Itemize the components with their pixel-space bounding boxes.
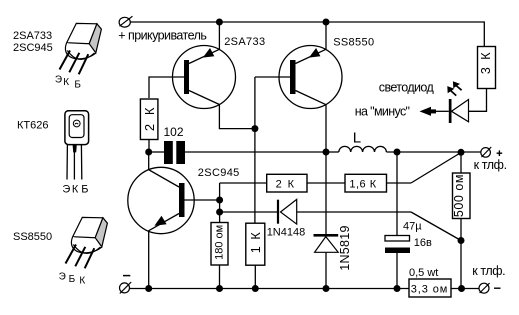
svg-text:16в: 16в: [414, 237, 432, 249]
svg-text:Э: Э: [59, 271, 66, 282]
svg-text:КТ626: КТ626: [17, 119, 48, 131]
svg-text:1 К: 1 К: [249, 231, 263, 254]
svg-text:2SC945: 2SC945: [198, 167, 240, 179]
svg-text:2SC945: 2SC945: [13, 42, 53, 54]
svg-text:к тлф.: к тлф.: [472, 264, 505, 278]
svg-text:К: К: [79, 276, 85, 287]
svg-text:L: L: [353, 129, 361, 146]
svg-text:К: К: [72, 183, 79, 195]
svg-text:Э: Э: [55, 75, 62, 86]
svg-text:к тлф.: к тлф.: [474, 158, 507, 172]
svg-text:+ прикуриватель: + прикуриватель: [118, 28, 206, 42]
svg-text:3 К: 3 К: [479, 50, 493, 74]
svg-text:2 К: 2 К: [276, 179, 296, 191]
svg-text:Б: Б: [81, 183, 88, 195]
svg-text:1,6 К: 1,6 К: [349, 179, 376, 191]
svg-text:1N4148: 1N4148: [267, 226, 306, 238]
svg-text:светодиод: светодиод: [379, 81, 435, 95]
svg-text:Э: Э: [62, 183, 70, 195]
svg-text:Б: Б: [69, 274, 76, 285]
svg-text:3,3 ом: 3,3 ом: [411, 283, 448, 295]
svg-text:SS8550: SS8550: [333, 37, 374, 49]
svg-text:180 ом: 180 ом: [213, 225, 225, 260]
svg-text:0,5 wt: 0,5 wt: [409, 267, 438, 279]
svg-text:2SA733: 2SA733: [224, 36, 265, 48]
svg-text:2 К: 2 К: [142, 105, 157, 131]
svg-text:47µ: 47µ: [403, 220, 422, 232]
svg-text:на "минус": на "минус": [355, 104, 410, 118]
svg-text:1N5819: 1N5819: [338, 225, 352, 271]
svg-text:К: К: [63, 77, 69, 88]
svg-text:Б: Б: [74, 79, 81, 90]
svg-text:2SA733: 2SA733: [13, 30, 52, 42]
svg-text:SS8550: SS8550: [13, 231, 52, 243]
svg-text:102: 102: [164, 125, 184, 139]
svg-text:500 ом: 500 ом: [452, 174, 466, 217]
